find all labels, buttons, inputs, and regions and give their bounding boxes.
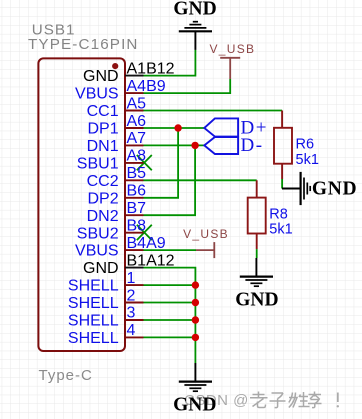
svg-text:SHELL: SHELL [68,295,119,312]
wire DN1-DN2 vertical [144,145,196,215]
svg-text:4: 4 [127,322,136,339]
svg-text:SBU1: SBU1 [77,156,119,173]
ground top [179,22,212,50]
pin 1 stub [125,284,144,286]
pin B1A12 stub (black) [125,267,144,269]
svg-text:VBUS: VBUS [75,86,119,103]
svg-text:VBUS: VBUS [75,243,119,260]
svg-text:B1A12: B1A12 [127,252,175,269]
wire SHELL4 [144,336,196,338]
svg-text:B7: B7 [127,200,147,217]
svg-text:V_USB: V_USB [183,227,229,241]
svg-text:GND: GND [83,68,119,85]
junction SHELL4 [192,334,199,341]
wire SHELL3 [144,319,196,321]
svg-text:R6: R6 [296,137,315,153]
watermark 李 [308,392,322,408]
svg-text:SHELL: SHELL [68,330,119,347]
pin numbers [127,60,175,339]
watermark ！ [337,393,339,408]
pin B4A9 stub [125,249,144,251]
svg-text:DP1: DP1 [87,121,118,138]
pin A8 stub [125,162,144,164]
svg-text:1: 1 [127,270,136,287]
wire CC2 B5 to R8 [144,179,257,181]
pin A5 stub [125,110,144,112]
svg-text:SHELL: SHELL [68,313,119,330]
pin 4 stub [125,336,144,338]
pin A1B12 stub (black) [125,75,144,77]
ground bottom [179,363,212,391]
svg-text:B6: B6 [127,183,147,200]
svg-text:B5: B5 [127,165,147,182]
svg-text:CC1: CC1 [87,103,119,120]
ground mid [240,258,273,286]
svg-text:V_USB: V_USB [210,42,256,56]
pin 3 stub [125,319,144,321]
pin A7 stub [125,144,144,146]
svg-text:GND: GND [173,395,216,416]
junction SHELL1 [192,281,199,288]
watermark 子 [270,393,286,408]
svg-text:SHELL: SHELL [68,278,119,295]
pin B7 stub [125,214,144,216]
pin stubs maroon [125,93,144,337]
svg-text:B4A9: B4A9 [127,235,166,252]
svg-text:DN1: DN1 [87,138,119,155]
svg-text:TYPE-C16PIN: TYPE-C16PIN [28,36,139,53]
svg-text:GND: GND [312,179,357,200]
wire VBUS B4A9 to V_USB 2 [144,249,197,251]
pin B6 stub [125,197,144,199]
pin B8 stub [125,232,144,234]
wire GND A1B12 to top gnd [144,50,196,76]
svg-text:5k1: 5k1 [296,152,319,168]
wire DP1 A6 to D+ port [144,127,205,129]
svg-text:R8: R8 [269,207,288,223]
svg-text:A4B9: A4B9 [127,78,166,95]
wire DN1 A7 to D- port [144,144,205,146]
net port D- [204,137,238,154]
pin A4B9 stub [125,92,144,94]
svg-text:A5: A5 [127,95,147,112]
pin 2 stub [125,302,144,304]
junction SHELL2 [192,299,199,306]
wire R6 to right gnd [281,179,283,189]
svg-text:A1B12: A1B12 [127,60,175,77]
svg-text:3: 3 [127,305,136,322]
svg-text:DP2: DP2 [87,190,118,207]
svg-text:Type-C: Type-C [39,367,93,384]
svg-text:B8: B8 [127,218,147,235]
net port D+ [204,118,238,136]
wire SHELL1 [144,284,196,286]
svg-text:D-: D- [241,135,264,156]
svg-text:DN2: DN2 [87,208,119,225]
junction SHELL3 [192,316,199,323]
svg-text:GND: GND [83,260,119,277]
svg-text:GND: GND [173,0,216,20]
ground right (rotated) [282,172,310,205]
chip body USB1 [38,58,125,351]
pin B5 stub [125,179,144,181]
wire VBUS A4B9 to V_USB [144,79,231,93]
svg-text:SBU2: SBU2 [77,225,119,242]
wire DP1-DP2 vertical [144,128,179,198]
svg-text:5k1: 5k1 [269,222,292,238]
watermark 老 [250,392,268,408]
wire CC1 A5 to R6 [144,110,283,112]
wire shell bus to bottom gnd [194,285,196,363]
svg-text:A7: A7 [127,130,147,147]
junction DP1 [174,124,181,131]
pin names [68,68,119,347]
junction DN1 [191,142,198,149]
no-connect X on SBU1 A8 [137,155,152,170]
netflag V_USB 2 [196,242,214,258]
watermark 姓 [289,392,310,408]
pin A6 stub [125,127,144,129]
no-connect X on SBU2 B8 [137,225,152,240]
svg-text:A6: A6 [127,113,147,130]
wire GND B1A12 down to shell bus [144,268,196,286]
symbol origin dot [112,63,118,69]
wire SHELL2 [144,302,196,304]
svg-text:2: 2 [127,287,136,304]
svg-text:A8: A8 [127,148,147,165]
netflag V_USB top [220,58,240,79]
wire R8 to mid gnd [256,249,258,258]
svg-text:CC2: CC2 [87,173,119,190]
resistor R6 [274,111,292,180]
watermark CSDN [184,392,249,409]
svg-text:GND: GND [235,290,278,311]
resistor R8 [248,180,266,249]
